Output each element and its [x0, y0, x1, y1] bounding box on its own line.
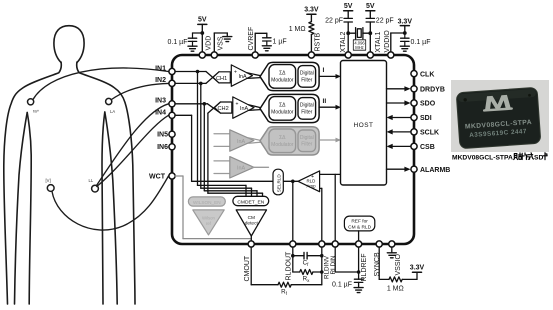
lead wire RL to WCT [52, 176, 169, 230]
svg-text:IN1: IN1 [155, 66, 166, 73]
gray digital filter 3 [298, 130, 316, 152]
svg-text:ref: ref [206, 221, 212, 226]
crystal 4.096MHz [348, 28, 370, 39]
svg-text:SCLK: SCLK [420, 130, 439, 137]
svg-text:SD: SD [534, 155, 543, 162]
svg-text:SDI: SDI [420, 115, 432, 122]
svg-text:InA: InA [237, 166, 245, 172]
svg-text:II: II [323, 98, 327, 105]
pin IN3 [169, 101, 175, 107]
lead wire LL to IN3 [97, 104, 169, 186]
pin ALARMB [411, 166, 417, 172]
caption hanzi ka (drawn) [543, 153, 547, 160]
svg-text:Digital: Digital [300, 71, 314, 77]
svg-text:InA: InA [240, 106, 248, 112]
junction VDDIO/cap [403, 31, 407, 35]
tap wire IN3 to CM detect [204, 104, 257, 197]
wire InA1 to modulator1 [247, 73, 260, 79]
svg-text:Modulator: Modulator [271, 142, 294, 148]
svg-text:3.3V: 3.3V [410, 265, 425, 272]
svg-text:0.1 µF: 0.1 µF [332, 281, 352, 288]
mux CH1 [213, 72, 230, 83]
net 5V (VDD supply) [193, 24, 207, 52]
svg-text:CH2: CH2 [217, 106, 228, 112]
wire Rx to RLDINV [313, 271, 322, 273]
box CMDET_EN [233, 196, 269, 205]
wire XTAL1 with 22pF to 5V [366, 11, 375, 52]
wire HOST to SDO [387, 102, 405, 104]
svg-text:WILSON_EN: WILSON_EN [193, 200, 221, 205]
svg-text:Wilson: Wilson [202, 215, 216, 220]
svg-text:[V]: [V] [46, 178, 51, 183]
pin IN4 [169, 112, 175, 118]
lead wire RA to IN1 [33, 68, 169, 99]
op-amp InA1 [231, 65, 252, 86]
wire IN2 to CH1 mux [175, 72, 219, 84]
crystal frequency label box [353, 40, 365, 50]
svg-text:MHz: MHz [355, 45, 363, 50]
pin RLDREF [356, 241, 362, 247]
svg-text:IN6: IN6 [157, 144, 168, 151]
svg-text:MKDV08GCL-STPA: MKDV08GCL-STPA [452, 155, 513, 162]
resistor 1Mohm at RSTB [307, 14, 316, 52]
capacitor 0.1uF at VDD [188, 33, 196, 46]
pin CSB [411, 143, 417, 149]
svg-text:XTAL1: XTAL1 [375, 32, 382, 53]
pin CMOUT [248, 241, 254, 247]
op-amp RLD [298, 171, 320, 192]
svg-text:ΣΔ: ΣΔ [279, 71, 286, 77]
svg-text:Filter: Filter [301, 142, 312, 148]
pin SYNCB [376, 241, 382, 247]
junction XTAL2/crystal [346, 31, 350, 35]
ground at CVREF cap [262, 46, 271, 51]
junction IN2 tap [199, 82, 203, 86]
chip logo M [482, 95, 513, 112]
caption hanzi pian (drawn) [522, 153, 528, 160]
wire SYNCB external [379, 247, 389, 279]
resistor Rx [300, 270, 313, 275]
wire REF to RLDREF [358, 231, 360, 241]
pin IN5 [169, 131, 175, 137]
pin CLK [411, 71, 417, 77]
svg-text:CMDET_EN: CMDET_EN [237, 199, 264, 205]
svg-text:IN4: IN4 [155, 110, 166, 117]
svg-text:CMOUT: CMOUT [244, 255, 251, 281]
svg-text:VDD: VDD [205, 36, 212, 51]
junction IN3 tap [203, 102, 207, 106]
svg-text:Digital: Digital [300, 103, 314, 109]
pin IN1 [169, 68, 175, 74]
digital filter 1 [298, 66, 316, 88]
svg-text:5V: 5V [366, 3, 375, 10]
svg-text:IN5: IN5 [157, 132, 168, 139]
sigma-delta modulator 1 [269, 65, 296, 89]
caption hanzi tie (drawn) [514, 153, 522, 160]
wire RLDINV external [321, 247, 323, 285]
gray channel3 input wires [214, 134, 230, 147]
svg-text:RSTB: RSTB [314, 33, 321, 52]
chip ADS1293 boundary [172, 55, 414, 244]
svg-text:SDO: SDO [420, 101, 436, 108]
wire channel2 to HOST, net II [319, 106, 339, 108]
pin IN6 [169, 144, 175, 150]
svg-text:22 pF: 22 pF [376, 17, 394, 24]
CM detect amp [236, 210, 266, 236]
pin XTAL2 [345, 52, 351, 58]
wire CSB to HOST [393, 145, 411, 147]
svg-text:1 MΩ: 1 MΩ [289, 26, 306, 33]
wire VDDIO to 3.3V [391, 26, 410, 52]
electrode LL (right chest) [92, 185, 99, 192]
wire channel1 to HOST, net I [319, 75, 339, 77]
box REF for CM & RLD [344, 216, 374, 231]
wire SCLK to HOST [393, 131, 411, 133]
svg-text:0.1 µF: 0.1 µF [411, 39, 431, 46]
svg-text:IN2: IN2 [155, 77, 166, 84]
svg-text:LA: LA [110, 109, 115, 114]
pin RLDIN [332, 241, 338, 247]
resistor 1Mohm at SYNCB [389, 277, 402, 282]
svg-text:IN3: IN3 [155, 98, 166, 105]
wire CVREF [255, 33, 267, 52]
svg-text:WCT: WCT [149, 173, 166, 180]
body outline (patient torso figure) [4, 26, 135, 304]
pin SDI [411, 114, 417, 120]
svg-text:ΣΔ: ΣΔ [279, 103, 286, 109]
svg-text:VDDIO: VDDIO [384, 30, 391, 53]
wire IN4 to RLD amp [175, 115, 298, 181]
pin VSSIO [389, 241, 395, 247]
svg-text:InA: InA [239, 74, 247, 80]
wire VSS to ground [214, 33, 227, 52]
junction RLD output [291, 180, 295, 184]
svg-text:XTAL2: XTAL2 [340, 32, 347, 53]
svg-text:CSB: CSB [420, 144, 435, 151]
wire RLD +input to RLDIN [320, 174, 341, 241]
svg-text:1 MΩ: 1 MΩ [387, 286, 404, 293]
wire HOST to ALARMB [387, 168, 405, 170]
svg-text:ALARMB: ALARMB [420, 167, 450, 174]
junction Rx/RLDINV [320, 270, 324, 274]
mux CH2 [215, 102, 232, 113]
svg-text:DRDYB: DRDYB [420, 87, 445, 94]
Wilson reference amp (disabled) [193, 210, 224, 235]
gray sigma-delta modulator 3 [269, 129, 296, 153]
svg-text:+: + [236, 101, 239, 107]
svg-text:Modulator: Modulator [271, 78, 294, 84]
svg-text:Digital: Digital [300, 135, 314, 141]
pin SDO [411, 100, 417, 106]
gray op-amp InA3 [230, 130, 254, 151]
gray wire channel3 to HOST [319, 139, 339, 141]
box WILSON_EN (disabled) [188, 197, 225, 206]
svg-text:1 µF: 1 µF [273, 39, 287, 46]
sigma-delta modulator 2 [269, 97, 296, 121]
IC photo chip body MKDV08GCL-STPA [456, 87, 541, 149]
pin VSS [211, 52, 217, 58]
wire HOST to DRDYB [387, 88, 405, 90]
junction IN1 tap [196, 70, 200, 74]
svg-text:detect: detect [245, 221, 259, 227]
svg-text:CH1: CH1 [216, 76, 227, 82]
pin IN2 [169, 80, 175, 86]
svg-text:Amp: Amp [307, 184, 317, 189]
IC photo background [451, 80, 549, 152]
lead wire LA to IN2 [112, 83, 169, 99]
pin CVREF [252, 52, 258, 58]
junction RLDREF [357, 270, 361, 274]
pin SCLK [411, 129, 417, 135]
junction XTAL1/crystal [368, 31, 372, 35]
pin VDD [199, 52, 205, 58]
pin XTAL1 [367, 52, 373, 58]
svg-text:Modulator: Modulator [271, 110, 294, 116]
tap wire CH2 input to CM detect [208, 113, 263, 196]
svg-text:0.1 µF: 0.1 µF [168, 39, 188, 46]
wire RLDIN external [335, 247, 358, 272]
svg-text:5V: 5V [344, 3, 353, 10]
caption hanzi shi (drawn) [528, 153, 533, 159]
wire IN3 to CH2 mux [175, 104, 221, 113]
svg-text:SELRLD: SELRLD [276, 174, 281, 193]
capacitor 1uF at CVREF [263, 38, 271, 46]
svg-text:I: I [323, 67, 325, 74]
wire XTAL2 with 22pF to 5V [344, 11, 353, 52]
svg-text:HOST: HOST [354, 122, 374, 129]
ground at VDDIO cap [400, 46, 409, 51]
wire IN1 to CH1 mux [175, 72, 219, 83]
electrode LA (right shoulder) [106, 98, 112, 104]
wire RLD -input to RLDINV [320, 188, 322, 241]
pin RSTB [308, 52, 314, 58]
svg-text:3.3V: 3.3V [304, 6, 319, 13]
pin RLDOUT [290, 241, 296, 247]
svg-text:+: + [234, 69, 237, 75]
electrode RL (left chest) [47, 185, 54, 192]
wire InA2 to modulator2 [249, 105, 261, 111]
box SELRLD [273, 169, 283, 195]
ground at VSSIO [387, 247, 396, 258]
svg-text:VSS: VSS [217, 36, 224, 50]
HOST block [341, 61, 387, 186]
channel1 ADC outer shape [260, 62, 319, 90]
svg-text:CM: CM [248, 215, 255, 221]
wire RLDREF external [358, 247, 360, 279]
svg-text:ra+: ra+ [33, 109, 40, 114]
junction Cf/RLDINV [320, 254, 324, 258]
ground at VSS [223, 37, 232, 42]
svg-text:CLK: CLK [420, 71, 434, 78]
svg-text:CVREF: CVREF [248, 27, 255, 51]
wire CH2 lower input [208, 102, 221, 113]
gray op-amp InA4 input wires [214, 161, 230, 174]
svg-text:VSSIO: VSSIO [395, 254, 402, 276]
wire RLDOUT external [293, 247, 300, 272]
capacitor 0.1uF at VDDIO [401, 33, 409, 46]
junction VDD/cap [200, 31, 204, 35]
resistor Rf [278, 282, 291, 287]
svg-text:CM & RLD: CM & RLD [348, 224, 371, 230]
wire SDI to HOST [393, 117, 411, 119]
pin RLDINV [319, 241, 325, 247]
ground at RLDREF cap [354, 288, 363, 293]
tap wire IN1 to CM detect [198, 72, 247, 197]
op-amp InA2 [233, 97, 254, 118]
gray channel3 ADC outer shape [260, 127, 319, 155]
ground at VDD cap [188, 46, 197, 51]
pin VDDIO [388, 52, 394, 58]
wire CM detect to CMOUT [250, 236, 252, 241]
svg-text:3.3V: 3.3V [398, 19, 413, 26]
wire WCT to CMOUT node [175, 176, 251, 241]
wire CMOUT down [251, 247, 278, 285]
svg-text:RLDREF: RLDREF [361, 253, 368, 281]
tap wire IN2 to CM detect [201, 83, 252, 196]
capacitor Cf [293, 252, 322, 259]
junction RLDOUT/Cf [291, 254, 295, 258]
wire resistor to 3.3V [402, 272, 421, 279]
svg-text:Filter: Filter [301, 109, 312, 115]
svg-text:22 pF: 22 pF [325, 17, 343, 24]
svg-text:Filter: Filter [301, 77, 312, 83]
channel2 ADC outer shape [260, 94, 319, 122]
pin DRDYB [411, 86, 417, 92]
digital filter 2 [298, 98, 316, 120]
svg-text:SYNCB: SYNCB [374, 252, 381, 276]
svg-text:ΣΔ: ΣΔ [279, 135, 286, 141]
gray wire InA3 to modulator3 [249, 138, 261, 143]
svg-text:REF for: REF for [351, 218, 368, 224]
wire Rf to RLDINV node [291, 284, 322, 286]
electrode RA (left shoulder) [28, 99, 34, 105]
svg-text:5V: 5V [198, 17, 207, 24]
lead wire LL to IN4 [97, 115, 169, 186]
pin WCT [169, 173, 175, 179]
svg-text:LL: LL [89, 178, 94, 183]
svg-text:InA: InA [237, 139, 245, 145]
wire RLD output to RLDOUT [292, 181, 294, 241]
gray op-amp InA4 [230, 157, 254, 178]
gray wire InA4 output [252, 166, 269, 168]
capacitor 0.1uF at RLDREF [354, 279, 362, 287]
